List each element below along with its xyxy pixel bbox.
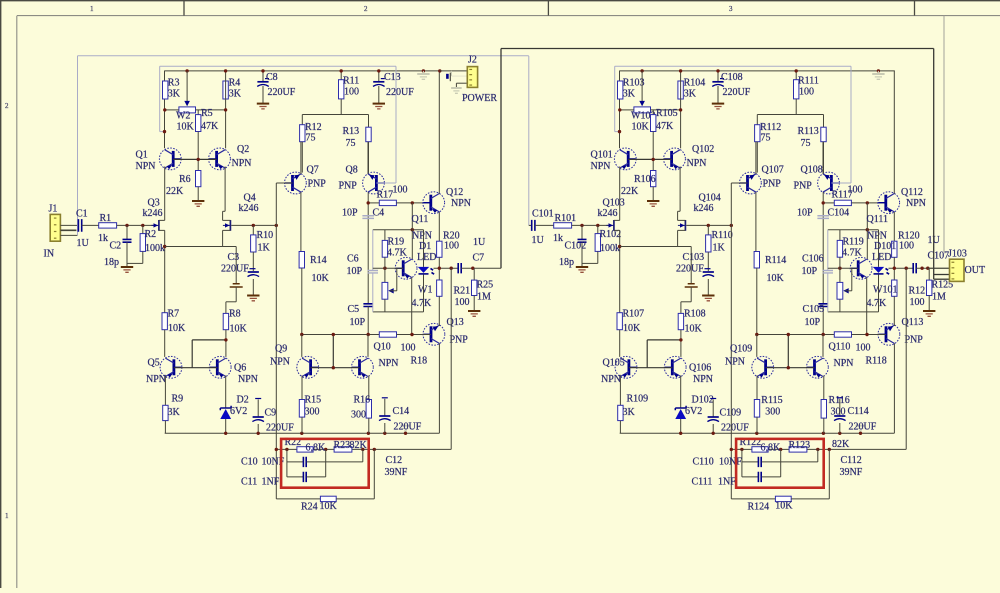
svg-text:R105: R105: [656, 108, 678, 119]
rail junction dots: [640, 69, 643, 72]
potentiometer W101: [839, 268, 841, 282]
svg-text:LED: LED: [417, 252, 436, 263]
resistor R114: [754, 252, 759, 269]
wire top rail net-VCC-R: [619, 70, 895, 72]
svg-text:Q112: Q112: [901, 187, 923, 198]
wire output row: [889, 267, 914, 269]
transistor Q8 PNP: [363, 172, 385, 194]
svg-text:D102: D102: [692, 395, 714, 406]
transistor Q106: [664, 356, 686, 378]
svg-text:R124: R124: [748, 502, 770, 513]
ground below C3: [247, 295, 259, 297]
power bars near J2: [446, 74, 449, 79]
svg-text:R111: R111: [798, 76, 819, 87]
svg-text:C102: C102: [565, 241, 587, 252]
connector J2: [467, 67, 477, 88]
svg-text:10P: 10P: [347, 266, 363, 277]
sheet margin right line: [943, 16, 945, 252]
svg-text:LED: LED: [872, 252, 891, 263]
svg-text:C110: C110: [693, 457, 714, 468]
ghost ground on rail: [877, 71, 879, 74]
wire left loop joins Q1 column: [160, 131, 165, 133]
svg-text:NPN: NPN: [136, 161, 156, 172]
resistor R116: [823, 376, 825, 400]
svg-text:Q10: Q10: [374, 342, 391, 353]
capacitor C6: [368, 271, 378, 273]
svg-text:R5: R5: [201, 108, 213, 119]
svg-text:Q2: Q2: [237, 144, 249, 155]
svg-text:10K: 10K: [632, 122, 650, 133]
svg-text:Q8: Q8: [346, 165, 358, 176]
svg-text:NPN: NPN: [906, 198, 926, 209]
transistor Q105: [619, 330, 621, 357]
wire R4/Q2 collector column: [225, 71, 227, 148]
plus tick C108: [720, 78, 724, 80]
wire Q9-Q10 base link: [766, 367, 815, 369]
resistor R121: [893, 268, 895, 280]
capacitor C102: [581, 225, 583, 239]
svg-text:6V2: 6V2: [230, 406, 247, 417]
svg-text:NPN: NPN: [725, 357, 745, 368]
wire bottom rail: [620, 432, 895, 434]
svg-text:R14: R14: [310, 255, 327, 266]
resistor R4: [223, 81, 228, 99]
resistor R122: [752, 447, 768, 452]
wire Q4 source tap to rotated ground: [223, 246, 237, 248]
plus tick C8: [265, 78, 269, 80]
wire Q8 collector from R13: [367, 142, 369, 174]
svg-text:Q1: Q1: [136, 150, 148, 161]
svg-text:C14: C14: [393, 406, 410, 417]
svg-text:100k: 100k: [600, 243, 620, 254]
wire rail to J2: [440, 70, 468, 72]
wire Q13 emitter from R21: [893, 325, 895, 327]
transistor Q109: [756, 335, 758, 357]
capacitor C5: [363, 304, 373, 307]
svg-text:C7: C7: [473, 253, 485, 264]
svg-text:R11: R11: [343, 76, 359, 87]
wire R12-R13 top row: [757, 114, 823, 116]
wire Q7 base: [731, 182, 747, 184]
svg-text:NPN: NPN: [146, 374, 166, 385]
svg-text:R7: R7: [168, 309, 180, 320]
svg-text:R13: R13: [343, 126, 360, 137]
capacitor C3 electrolytic: [250, 268, 256, 270]
wire cross feed top: [501, 48, 934, 50]
svg-text:100: 100: [344, 87, 359, 98]
svg-text:NPN: NPN: [601, 374, 621, 385]
wire Q13 collector to rail corner: [438, 344, 440, 434]
svg-text:C109: C109: [720, 408, 742, 419]
svg-text:Q9: Q9: [275, 344, 287, 355]
capacitor C106: [823, 271, 833, 273]
jfet Q103: [613, 220, 615, 231]
wire Q8 base to top loop: [831, 182, 851, 184]
wire top loop left leg: [159, 66, 161, 131]
wire C10 right link: [362, 449, 364, 462]
led D101: [878, 230, 880, 267]
wire Q12 collector to rail: [893, 71, 895, 194]
svg-text:100: 100: [393, 185, 408, 196]
connector J103: [950, 259, 965, 281]
svg-text:R17: R17: [377, 190, 394, 201]
svg-text:4.7K: 4.7K: [387, 248, 408, 259]
wire J103 third pin stub: [933, 275, 935, 280]
svg-text:POWER: POWER: [462, 93, 497, 104]
svg-text:PNP: PNP: [450, 335, 469, 346]
svg-text:R119: R119: [843, 237, 864, 248]
wire Q8 emitter column: [367, 192, 369, 304]
resistor R107: [617, 313, 622, 330]
svg-text:18p: 18p: [559, 257, 574, 268]
svg-text:1K: 1K: [713, 243, 726, 254]
svg-text:Q103: Q103: [603, 198, 625, 209]
svg-text:220UF: 220UF: [221, 264, 249, 275]
transistor Q11: [395, 257, 417, 279]
wire feedback riser from output: [905, 268, 907, 449]
svg-text:6,8K: 6,8K: [761, 443, 782, 454]
svg-text:R3: R3: [168, 78, 180, 89]
wire feedback riser from output: [450, 268, 452, 449]
svg-text:220UF: 220UF: [849, 422, 877, 433]
resistor R105: [652, 110, 654, 115]
wire Q11 collector column: [411, 203, 413, 259]
resistor R125: [928, 268, 930, 280]
svg-text:220UF: 220UF: [721, 423, 749, 434]
zone tick 3: [914, 0, 916, 16]
wire Q1 emitter to Q3 drain: [164, 167, 166, 221]
wire top loop horizontal: [615, 65, 851, 67]
svg-text:Q105: Q105: [603, 358, 625, 369]
wire Q7 feedback column: [730, 183, 732, 499]
svg-text:4.7K: 4.7K: [867, 298, 888, 309]
wire Q4 source tap to rotated ground: [678, 246, 692, 248]
svg-text:R101: R101: [555, 213, 577, 224]
svg-text:220UF: 220UF: [723, 87, 751, 98]
wire Q11 base row: [828, 267, 858, 269]
wire left output riser: [500, 49, 502, 269]
svg-text:J2: J2: [468, 55, 477, 66]
svg-text:R16: R16: [354, 395, 371, 406]
wire top loop right leg to Q8 base: [850, 66, 852, 183]
wire Q7 feedback column: [275, 183, 277, 499]
plus tick C13: [381, 78, 385, 80]
svg-text:75: 75: [346, 138, 356, 149]
wire Q12 emitter to R20: [893, 212, 895, 241]
wire Q13 collector to rail corner: [893, 344, 895, 434]
wire input riser right channel: [528, 56, 530, 225]
resistor R1: [99, 223, 117, 228]
resistor R101: [554, 223, 572, 228]
wire Q1-Q2 base link: [173, 158, 216, 160]
svg-text:NPN: NPN: [867, 231, 887, 242]
resistor R9: [164, 376, 166, 406]
svg-text:Q106: Q106: [689, 363, 711, 374]
capacitor C105: [818, 304, 828, 307]
ground below C13: [373, 103, 385, 105]
svg-text:W1: W1: [418, 285, 432, 296]
svg-text:R15: R15: [305, 395, 322, 406]
ghost ground on rail: [422, 71, 424, 74]
svg-text:NPN: NPN: [687, 158, 707, 169]
svg-text:D101: D101: [874, 241, 896, 252]
svg-text:R2: R2: [145, 229, 157, 240]
wire bias box bottom edge: [373, 311, 424, 313]
capacitor C109 electrolytic: [710, 398, 716, 400]
svg-text:R21: R21: [454, 286, 471, 297]
wire after C7: [916, 267, 949, 269]
potentiometer W102: [641, 71, 643, 101]
svg-text:PNP: PNP: [763, 179, 782, 190]
svg-text:C13: C13: [384, 72, 401, 83]
capacitor C111: [742, 476, 759, 478]
resistor R112: [756, 115, 758, 125]
svg-text:4.7K: 4.7K: [412, 298, 433, 309]
svg-text:R112: R112: [760, 122, 781, 133]
svg-text:Q7: Q7: [307, 165, 319, 176]
svg-text:NPN: NPN: [451, 198, 471, 209]
wire Q9-Q10 base link: [311, 367, 360, 369]
svg-text:k246: k246: [598, 208, 618, 219]
transistor Q6: [209, 356, 231, 378]
capacitor C13 electrolytic: [378, 71, 380, 82]
resistor R8: [225, 302, 227, 314]
ground below C102: [576, 266, 588, 268]
svg-text:Q6: Q6: [234, 363, 246, 374]
svg-text:Q108: Q108: [801, 165, 823, 176]
resistor R12: [301, 115, 303, 125]
svg-text:C12: C12: [386, 455, 403, 466]
svg-text:R108: R108: [684, 309, 706, 320]
wire base link riser: [332, 335, 334, 368]
capacitor C4: [362, 216, 374, 219]
capacitor C108 electrolytic: [717, 71, 719, 82]
resistor R104: [678, 81, 683, 99]
svg-text:100: 100: [899, 241, 914, 252]
wire input riser: [77, 56, 79, 236]
resistor R5: [197, 110, 199, 115]
wire Q7 emitter from R12: [755, 142, 757, 174]
transistor Q13 PNP: [423, 323, 445, 345]
capacitor C103 electrolytic: [705, 268, 711, 270]
wire W2 row: [165, 109, 179, 111]
resistor R118: [834, 332, 851, 337]
ground below R6: [647, 200, 659, 202]
wire Q5-Q6 base link: [174, 367, 217, 369]
resistor R13: [368, 115, 370, 128]
capacitor C104: [817, 216, 829, 219]
svg-text:10P: 10P: [342, 208, 358, 219]
zone tick 1: [183, 0, 185, 16]
wire cross feed into J103: [934, 274, 950, 276]
resistor R6: [197, 159, 199, 170]
svg-text:R123: R123: [789, 440, 811, 451]
svg-text:75: 75: [761, 133, 771, 144]
svg-text:Q3: Q3: [148, 198, 160, 209]
svg-text:k246: k246: [694, 203, 714, 214]
wire Q5-Q6 base link: [629, 367, 672, 369]
resistor R17: [368, 202, 379, 204]
svg-text:1: 1: [5, 512, 9, 520]
svg-text:NPN: NPN: [693, 374, 713, 385]
resistor R108: [680, 302, 682, 314]
wire W2 row: [620, 109, 634, 111]
wire left loop joins Q1 column: [615, 131, 620, 133]
transistor Q10: [352, 356, 374, 378]
transistor Q112: [878, 192, 900, 214]
svg-text:C5: C5: [348, 304, 360, 315]
svg-text:C2: C2: [110, 241, 122, 252]
svg-text:C6: C6: [347, 254, 359, 265]
capacitor C2: [126, 225, 128, 239]
transistor Q102: [664, 148, 686, 170]
rotated ground above R8: [690, 247, 692, 284]
wire bias box top edge: [373, 229, 424, 231]
svg-text:300: 300: [305, 407, 320, 418]
svg-text:10K: 10K: [775, 501, 793, 512]
resistor R110: [707, 225, 709, 235]
svg-text:NPN: NPN: [270, 357, 290, 368]
svg-text:220UF: 220UF: [268, 87, 296, 98]
wire Q1 collector column / R3 column: [164, 71, 166, 148]
wire C2-R2 ground link: [127, 262, 143, 264]
capacitor C7: [458, 263, 461, 273]
wire Q7 emitter from R12: [300, 142, 302, 174]
svg-text:300: 300: [765, 407, 780, 418]
resistor R103: [618, 81, 623, 99]
resistor R2: [142, 225, 144, 233]
ground below C108: [712, 103, 724, 105]
wire input feed line: [78, 55, 529, 57]
svg-text:R115: R115: [761, 395, 782, 406]
resistor R16: [368, 376, 370, 400]
svg-text:100: 100: [444, 241, 459, 252]
svg-text:220UF: 220UF: [266, 423, 294, 434]
zener diode D2: [225, 376, 227, 409]
ghost ground on bottom rail: [401, 425, 411, 427]
wire bias box bottom edge: [828, 311, 879, 313]
svg-text:100: 100: [799, 87, 814, 98]
svg-text:10P: 10P: [805, 317, 821, 328]
resistor R10: [252, 225, 254, 235]
wire C1 to R1: [82, 224, 99, 226]
svg-text:Q101: Q101: [591, 150, 613, 161]
resistor R117: [823, 202, 834, 204]
svg-text:NPN: NPN: [412, 231, 432, 242]
wire Q11 base row: [373, 267, 403, 269]
wire Q12 collector to rail: [438, 71, 440, 194]
svg-text:C101: C101: [532, 209, 554, 220]
svg-text:2: 2: [5, 102, 9, 110]
rail junction dots: [185, 69, 188, 72]
svg-text:R8: R8: [229, 309, 241, 320]
transistor Q12: [423, 192, 445, 214]
svg-text:1U: 1U: [77, 238, 90, 249]
svg-text:R23: R23: [334, 440, 351, 451]
svg-text:1M: 1M: [477, 292, 491, 303]
svg-text:PNP: PNP: [794, 181, 813, 192]
svg-text:3K: 3K: [623, 89, 636, 100]
wire Q11 emitter to box bottom: [866, 278, 868, 335]
potentiometer W2: [186, 71, 188, 101]
svg-text:k246: k246: [239, 203, 259, 214]
svg-text:R10: R10: [257, 230, 274, 241]
svg-text:10P: 10P: [797, 208, 813, 219]
ghost ground on bottom rail: [856, 425, 866, 427]
resistor R22: [297, 447, 313, 452]
transistor Q1: [159, 148, 181, 170]
svg-text:NPN: NPN: [379, 358, 399, 369]
rotated ground above R8: [235, 247, 237, 284]
svg-text:1U: 1U: [473, 237, 486, 248]
wire Q13 base row R18: [757, 334, 835, 336]
connector J1: [50, 214, 60, 241]
svg-text:3K: 3K: [623, 407, 636, 418]
wire J2 pin4: [456, 82, 467, 84]
svg-text:R18: R18: [411, 356, 428, 367]
svg-text:R19: R19: [388, 237, 405, 248]
resistor R20: [437, 241, 442, 257]
sheet border top edge: [0, 0, 1000, 2]
resistor R102: [597, 225, 599, 233]
wire Q8 collector from R13: [822, 142, 824, 174]
svg-text:C107: C107: [928, 251, 950, 262]
svg-text:R103: R103: [623, 78, 645, 89]
transistor Q107 PNP: [740, 172, 762, 194]
resistor R19: [384, 230, 386, 241]
svg-text:100: 100: [401, 343, 416, 354]
svg-text:3: 3: [729, 5, 733, 13]
wire R12-R13 top row: [302, 114, 368, 116]
svg-text:R9: R9: [172, 394, 184, 405]
transistor Q108 PNP: [818, 172, 840, 194]
svg-text:100: 100: [455, 297, 470, 308]
svg-text:PNP: PNP: [308, 179, 327, 190]
capacitor C10: [286, 449, 288, 477]
svg-text:D1: D1: [419, 241, 431, 252]
svg-text:C11: C11: [241, 477, 257, 488]
wire bottom rail: [165, 432, 440, 434]
wire R4/Q2 collector column: [680, 71, 682, 148]
resistor R123: [789, 447, 807, 452]
resistor R25: [473, 268, 475, 280]
resistor R7: [162, 313, 167, 330]
svg-text:39NF: 39NF: [840, 467, 863, 478]
svg-text:C112: C112: [841, 455, 862, 466]
capacitor C110: [741, 449, 743, 477]
svg-text:Q110: Q110: [829, 342, 851, 353]
svg-text:1k: 1k: [98, 233, 108, 244]
resistor R113: [823, 115, 825, 128]
capacitor C8 electrolytic: [262, 71, 264, 82]
svg-text:220UF: 220UF: [394, 422, 422, 433]
svg-text:Q13: Q13: [447, 317, 464, 328]
transistor Q111: [850, 257, 872, 279]
potentiometer W1: [384, 268, 386, 282]
svg-text:Q11: Q11: [412, 214, 429, 225]
transistor Q110: [807, 356, 829, 378]
wire W1 wiper: [843, 288, 848, 293]
svg-text:100k: 100k: [145, 243, 165, 254]
svg-text:4.7K: 4.7K: [842, 248, 863, 259]
svg-text:D2: D2: [237, 395, 249, 406]
wire C101 to R101: [535, 224, 554, 226]
resistor R124 row: [731, 498, 775, 500]
svg-text:Q109: Q109: [730, 344, 752, 355]
resistor R21: [438, 268, 440, 280]
wire base to Q6 collector link: [646, 340, 648, 368]
zener diode D102: [680, 376, 682, 409]
